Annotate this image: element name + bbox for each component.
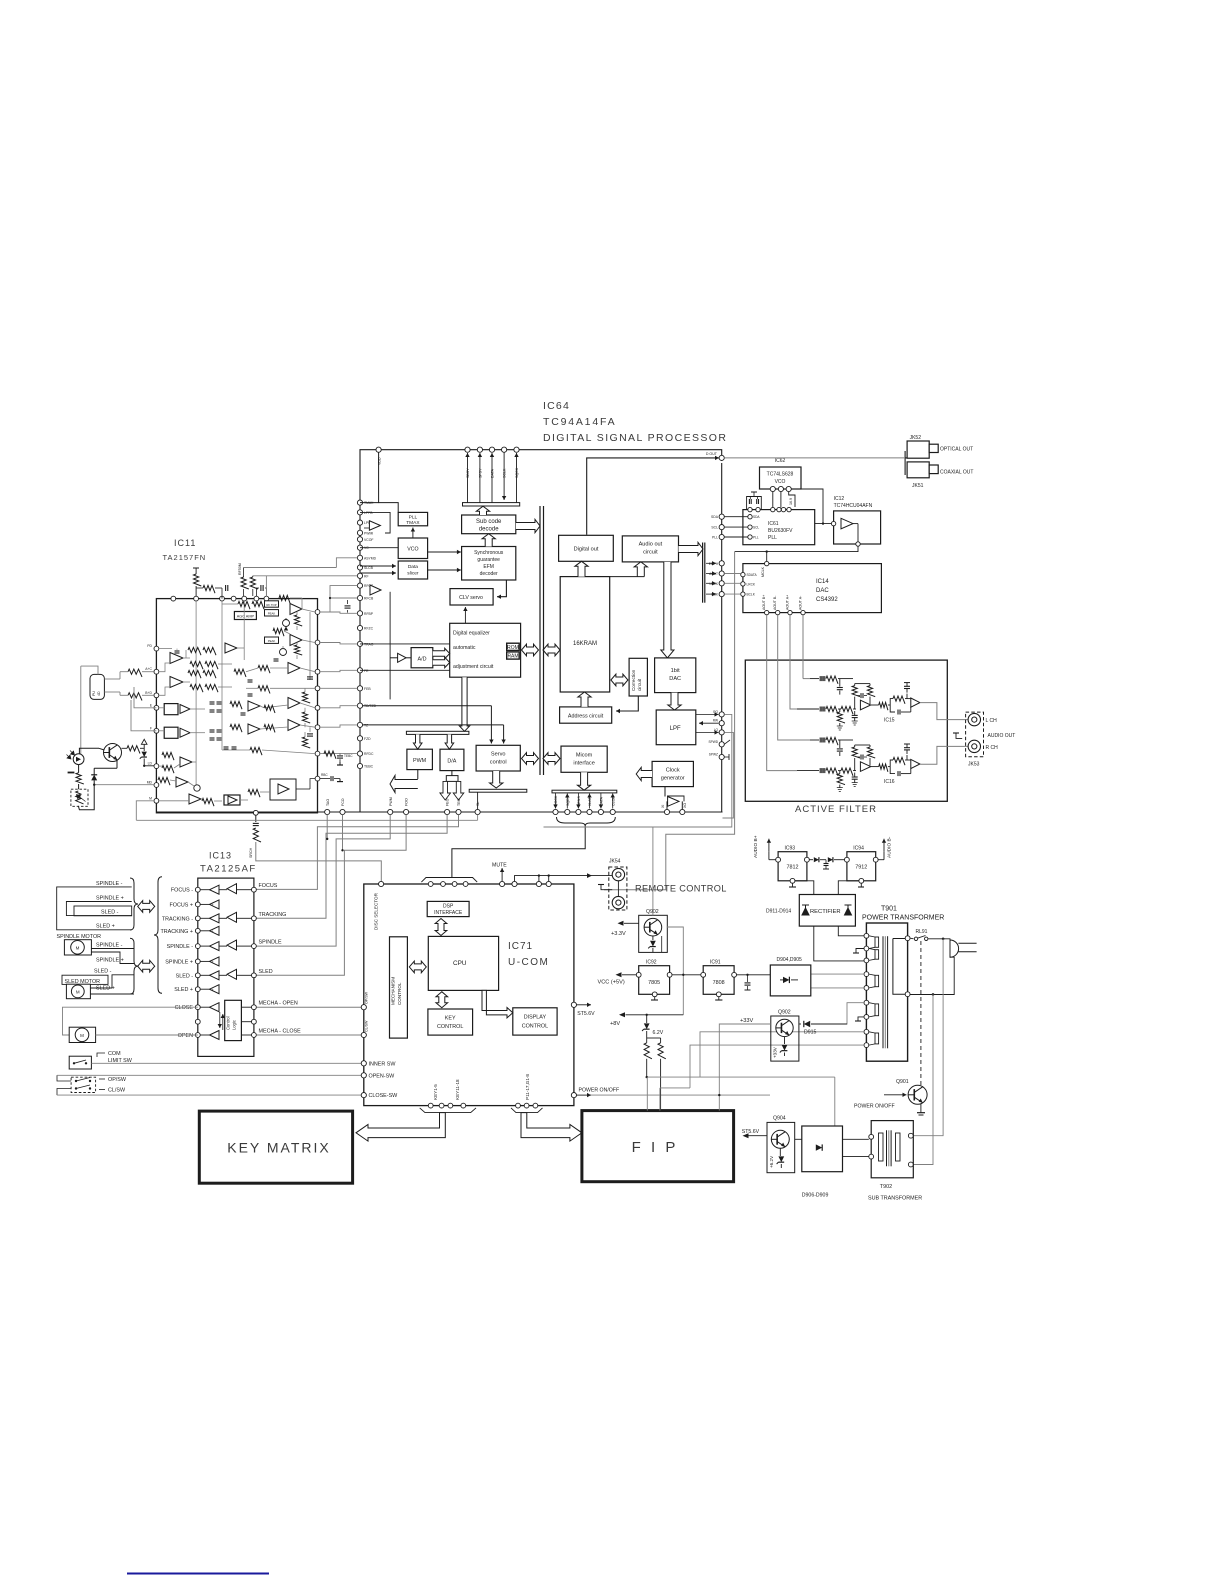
wire B+D [128, 693, 142, 701]
pin SCL ic61 [748, 525, 752, 529]
arrow to FIP [521, 1113, 582, 1142]
svg-text:D OUT: D OUT [706, 452, 718, 456]
pin BCK [719, 592, 724, 597]
op-amp filter 2nd [911, 759, 920, 768]
resistor top1 [195, 572, 197, 574]
wire IC16 out [920, 746, 968, 764]
svg-text:Q904: Q904 [773, 1116, 786, 1122]
pin IC94 gnd [859, 878, 864, 883]
pin IC13 TRACKING [252, 916, 257, 921]
pin T901 [864, 1029, 869, 1034]
svg-text:SLED -: SLED - [176, 973, 194, 979]
brace sled group [130, 938, 138, 994]
inverter IC12 [841, 518, 853, 529]
AC plug [950, 940, 959, 957]
op-amp lower1 [180, 757, 192, 767]
svg-text:XLAT: XLAT [588, 796, 592, 806]
pin IC11 bottom [253, 810, 258, 815]
pin T902 rb [908, 1162, 913, 1167]
Address circuit block [560, 707, 612, 723]
svg-text:IC12: IC12 [834, 496, 845, 502]
svg-text:IC15: IC15 [884, 718, 895, 724]
svg-text:Q902: Q902 [646, 909, 659, 915]
wire A+C [128, 669, 142, 677]
wire rfct rfcb [320, 586, 357, 612]
Data slicer block [398, 561, 427, 579]
arrows control [219, 1012, 221, 1028]
svg-text:IC13: IC13 [209, 851, 232, 861]
pin T901 right bot [905, 992, 910, 997]
pin IC71 top [452, 882, 457, 887]
svg-text:SQDT: SQDT [566, 795, 570, 806]
resistor pair [644, 1043, 652, 1059]
winding [875, 1033, 879, 1044]
pin T901 [864, 1000, 869, 1005]
svg-text:SUB TRANSFORMER: SUB TRANSFORMER [868, 1196, 922, 1202]
pin IC11 left LD [154, 764, 159, 769]
pin IC11 RFDC [315, 640, 320, 645]
wire lrck [724, 582, 740, 584]
wire LO down [723, 732, 734, 818]
svg-text:circuit: circuit [643, 550, 658, 556]
svg-text:INTERFACE: INTERFACE [434, 910, 463, 916]
A/D block [411, 648, 433, 668]
wire loop B [66, 902, 131, 916]
resistor feb gnd [302, 692, 310, 703]
wire IC11 to DSP [320, 706, 357, 708]
svg-text:RFBP: RFBP [364, 612, 374, 616]
svg-text:LPF: LPF [670, 726, 681, 732]
capacitor to gnd 2nd [906, 750, 908, 754]
arrow 16KRAM correction [611, 674, 628, 686]
svg-text:IC14: IC14 [816, 579, 829, 585]
supply triangle +B [141, 739, 147, 744]
wire sda [724, 516, 748, 518]
svg-text:RFDC: RFDC [364, 752, 374, 756]
pin VCOF [357, 537, 362, 542]
svg-text:M: M [80, 1033, 84, 1038]
pin IC11 top [220, 596, 225, 601]
pin EMPH [719, 561, 724, 566]
wire equalizer in TRAG [360, 643, 450, 645]
op-amp RF1 [170, 653, 183, 664]
subcode bus bar [463, 503, 520, 506]
wire mute net to JK54 [515, 876, 613, 882]
arrow PWM output [417, 770, 419, 779]
DISPLAY CONTROL block [513, 1008, 557, 1035]
wire long down right [604, 552, 735, 890]
svg-text:Sub code: Sub code [476, 519, 502, 525]
pin IC11 top [242, 596, 247, 601]
pin RFBP [357, 611, 362, 616]
pin IC14 AOUT B+ [765, 610, 769, 614]
svg-text:AOUT B+: AOUT B+ [762, 595, 766, 610]
wire M pin [136, 801, 154, 821]
wire t901 p6 to d915 [842, 1003, 864, 1024]
pin SQCK [514, 447, 519, 452]
capacitor 747 [747, 975, 749, 982]
svg-text:KEY: KEY [445, 1016, 456, 1022]
pin SDA ic61 [748, 515, 752, 519]
wire 33v left [719, 1024, 771, 1095]
pin IC62 3 [786, 486, 791, 491]
wire d904 p4 [810, 973, 812, 975]
box eq2 [164, 727, 178, 738]
pin IC11 left E [154, 705, 159, 710]
svg-text:TEBC: TEBC [364, 765, 374, 769]
svg-text:FEB: FEB [364, 687, 371, 691]
capacitor gnd row2 [854, 711, 856, 715]
wire IC11 to DSP [320, 670, 357, 671]
svg-text:MD: MD [147, 781, 153, 785]
trapezoid key pins [420, 1108, 476, 1113]
bus arrow servo control [522, 753, 539, 765]
wire pwr onoff fip [659, 1088, 661, 1111]
svg-text:KEY11-18: KEY11-18 [455, 1079, 460, 1100]
arrow VCO to EFM decoder [428, 551, 461, 553]
ground JK54 [601, 885, 612, 890]
wire correction to address [616, 696, 638, 711]
svg-text:SPINDLE -: SPINDLE - [167, 944, 194, 950]
tick minus [68, 772, 75, 774]
pin IC91 r [732, 972, 737, 977]
svg-text:FOCUS +: FOCUS + [169, 902, 193, 908]
svg-text:D915: D915 [804, 1030, 817, 1036]
pin IC11 top [194, 596, 199, 601]
svg-text:TEBC: TEBC [344, 754, 353, 758]
wire MD pin [94, 784, 154, 786]
svg-text:TC74LS628: TC74LS628 [767, 472, 794, 478]
svg-text:CLOK: CLOK [611, 796, 615, 806]
wire IC11 vert2 [221, 601, 223, 750]
pin VC [357, 545, 362, 550]
pin ST5.6V [571, 1002, 576, 1007]
svg-text:LPFB: LPFB [364, 511, 373, 515]
op-amp driver pair [210, 971, 220, 980]
wire IC11 vert3 [243, 601, 245, 660]
pin DAO [404, 809, 409, 814]
pin IC11 RFBP [315, 610, 320, 615]
pin XLAT [587, 809, 592, 814]
pin IC61 top [756, 507, 760, 511]
caps mid cluster [210, 701, 215, 703]
IC13 block [198, 878, 254, 1056]
pin RFZC [357, 625, 362, 630]
pin VDD [376, 447, 381, 452]
pin IC13 MECHA - OPEN [252, 1005, 257, 1010]
arrow equalizer down to bar [459, 677, 469, 731]
resistor feedback2 [869, 684, 871, 686]
svg-text:Q902: Q902 [778, 1010, 791, 1016]
svg-text:+3.3V: +3.3V [611, 931, 626, 937]
wire res bottom [647, 1076, 835, 1078]
svg-text:IC11: IC11 [174, 538, 196, 548]
pin FEB [357, 686, 362, 691]
pin IC14 BCLK [741, 592, 745, 596]
svg-text:VCOF: VCOF [364, 538, 373, 542]
svg-text:ROM: ROM [507, 645, 519, 651]
pin IC91 l [701, 972, 706, 977]
svg-text:FE: FE [364, 669, 369, 673]
svg-text:guarantee: guarantee [477, 557, 500, 563]
wire bck [724, 593, 740, 595]
capacitor feedback [860, 693, 862, 698]
pin T902 lt [869, 1134, 874, 1139]
op-amp lower2 [176, 777, 188, 787]
svg-text:SDA: SDA [753, 515, 760, 519]
svg-text:Clock: Clock [666, 768, 680, 774]
wire lpf in [699, 722, 719, 724]
svg-text:MECHANISM: MECHANISM [391, 977, 396, 1005]
pin IC11 left A+C [154, 669, 159, 674]
svg-text:JK52: JK52 [910, 435, 922, 441]
pin IC13 SLED [252, 973, 257, 978]
16KRAM block [560, 577, 610, 692]
svg-text:Digital equalizer: Digital equalizer [453, 631, 490, 637]
resistor rf net1 [190, 661, 203, 669]
label SLED MOTOR [62, 975, 108, 984]
svg-text:Logic: Logic [232, 1020, 237, 1030]
svg-text:16.9: 16.9 [789, 498, 793, 505]
wire rl91 to plug [928, 939, 950, 940]
winding [875, 950, 879, 960]
IC12 block [834, 511, 881, 544]
Digital equalizer block [450, 623, 521, 677]
wire rect to t901 p1 [838, 926, 864, 936]
IC61 block [743, 510, 815, 545]
bus arrow ROM RAM [522, 644, 539, 656]
pin LPFB [357, 510, 362, 515]
wire data slicer left1 [360, 565, 396, 567]
capacitor to gnd 2nd [906, 689, 908, 693]
pin IC11 top [254, 596, 259, 601]
wire IC11 vert1 [195, 601, 197, 790]
IC11 block [156, 599, 317, 813]
wire rect to ic94 [838, 881, 859, 895]
wire IC15 out [920, 703, 968, 720]
pin IC91 g [716, 992, 721, 997]
op-amp before A/D [390, 657, 398, 659]
svg-text:+6.2V: +6.2V [769, 1155, 774, 1168]
pin IC12 out [856, 542, 860, 546]
RECTIFIER block [799, 895, 855, 927]
pin IC13 MECHA - CLOSE [252, 1033, 257, 1038]
arrow to key matrix [356, 1113, 445, 1142]
svg-text:D906-D909: D906-D909 [802, 1193, 829, 1199]
zener laser [141, 752, 146, 757]
pin SPWZ [719, 754, 724, 759]
wire q902 riser up [652, 827, 654, 915]
svg-text:AOUT B-: AOUT B- [773, 595, 777, 610]
pin IC93 out [805, 857, 810, 862]
svg-text:FOCUS -: FOCUS - [171, 888, 193, 894]
svg-text:Q901: Q901 [896, 1079, 909, 1085]
arrow DA out right [453, 781, 464, 800]
svg-text:SPINDLE: SPINDLE [259, 940, 282, 946]
wire EFM to CLV servo [497, 580, 506, 597]
op-amp row A [290, 604, 302, 615]
KEY CONTROL block [428, 1009, 473, 1035]
svg-text:RBC: RBC [321, 773, 328, 777]
circle var2 [280, 649, 287, 656]
svg-text:SPINDLE -: SPINDLE - [96, 881, 123, 887]
svg-text:TRAG: TRAG [364, 642, 374, 646]
svg-text:DAC: DAC [816, 588, 829, 594]
wire IC62 right to IC12 net [795, 489, 823, 524]
svg-text:7812: 7812 [787, 865, 799, 871]
wire mid pin [241, 1021, 251, 1023]
svg-text:CLV servo: CLV servo [459, 595, 483, 601]
svg-text:T901: T901 [881, 906, 897, 913]
pin dao2 [456, 809, 461, 814]
arrow mute [501, 868, 503, 881]
svg-text:D/A: D/A [447, 759, 456, 765]
pin T901 right top [905, 936, 910, 941]
pin TEBC [357, 763, 362, 768]
pin LRCK [719, 581, 724, 586]
svg-text:JK51: JK51 [912, 483, 924, 489]
svg-text:F I P: F I P [632, 1139, 679, 1156]
pin OPEN-SW [361, 1073, 366, 1078]
wire digital out to D OUT [587, 458, 719, 535]
wire IC11 vert5 [309, 612, 311, 680]
svg-text:LRCK: LRCK [747, 582, 756, 586]
op-amp open drv [210, 1031, 220, 1040]
RC network 2nd [890, 699, 893, 705]
svg-text:OPEN-SW: OPEN-SW [369, 1073, 396, 1079]
wire vertical eq left [389, 592, 391, 700]
capacitor pd pin [159, 648, 172, 650]
arrow servo control down [490, 771, 503, 788]
Sub code decode block [462, 515, 516, 534]
brace spindle group [130, 878, 138, 930]
winding [875, 937, 879, 947]
pin T901 [864, 972, 869, 977]
pin IC14 AOUT A+ [788, 610, 792, 614]
op-amp driver pair [210, 914, 220, 923]
pin IC11 top [264, 596, 269, 601]
wire pickup loop [81, 666, 98, 674]
Synchronous guarantee EFM decoder block [462, 547, 516, 581]
capacitor mid [825, 860, 827, 863]
capacitor rfbp line [345, 605, 351, 607]
svg-text:LD: LD [148, 762, 153, 766]
arrow data slicer to EFM decoder [428, 569, 461, 571]
pin IC11 left PD [154, 646, 159, 651]
svg-text:RAM: RAM [507, 654, 518, 660]
resistor r var1 [294, 615, 302, 626]
op-amp feb [288, 663, 300, 674]
pin RFCB [357, 595, 362, 600]
pin IC14 LRCK [741, 582, 745, 586]
svg-text:XI: XI [661, 805, 665, 808]
pin INNER SW [361, 1061, 366, 1066]
pin IC71 fip [516, 1103, 521, 1108]
svg-text:6.2V: 6.2V [653, 1030, 664, 1036]
LPF block [656, 710, 696, 745]
pin RFDC [357, 751, 362, 756]
svg-text:CONTROL: CONTROL [522, 1024, 548, 1030]
pin IC11 TEB [315, 725, 320, 730]
pin CLOK [610, 809, 615, 814]
svg-text:TAO: TAO [326, 799, 330, 806]
svg-text:AUDIO B+: AUDIO B+ [753, 835, 759, 858]
svg-text:OPTICAL OUT: OPTICAL OUT [940, 447, 973, 453]
op-amp teb mid [248, 724, 260, 734]
pin T902 rt [908, 1133, 913, 1138]
svg-text:POWER TRANSFORMER: POWER TRANSFORMER [862, 915, 944, 922]
svg-text:AUDIO OUT: AUDIO OUT [988, 733, 1016, 739]
motor sled [66, 984, 90, 999]
svg-text:Control: Control [226, 1016, 231, 1030]
svg-text:RF TOP: RF TOP [266, 603, 276, 607]
CPU block [428, 936, 498, 990]
RAM label [507, 652, 520, 659]
svg-text:TC94A14FA: TC94A14FA [543, 416, 616, 428]
switch op cl [71, 1077, 96, 1092]
JK52 optical connector [907, 441, 929, 458]
svg-text:TA2125AF: TA2125AF [200, 864, 257, 875]
pin AOUT [719, 571, 724, 576]
svg-text:F: F [150, 726, 152, 730]
T902 block [871, 1121, 913, 1178]
pin IC11 top [231, 596, 236, 601]
wire IC11 to DSP [320, 687, 357, 689]
IC71 block [364, 884, 574, 1106]
svg-text:SCL: SCL [753, 526, 759, 530]
pin IC13 SLED - [195, 973, 200, 978]
pin IC71 fip [533, 1103, 538, 1108]
IC62 block [760, 467, 802, 489]
wire IC14 drop3 [778, 615, 810, 740]
svg-text:7805: 7805 [648, 980, 660, 986]
bus arrow micom interface [543, 753, 560, 765]
pin SBSY [465, 447, 470, 452]
svg-text:M: M [76, 946, 80, 951]
svg-text:PWM: PWM [389, 797, 393, 806]
Servo control block [476, 745, 520, 771]
svg-text:OP/SW: OP/SW [108, 1077, 127, 1083]
resistor top4 [250, 577, 258, 589]
photodiode MD [73, 754, 84, 765]
wire rect to ic93 [795, 881, 814, 895]
resistor feedback2 [869, 745, 871, 747]
capacitor feedback [860, 755, 862, 760]
svg-text:RECTIFIER: RECTIFIER [810, 909, 841, 915]
svg-text:interface: interface [573, 761, 594, 767]
svg-text:RF50M: RF50M [238, 563, 242, 575]
svg-text:RFZC: RFZC [364, 627, 374, 631]
pin IC11 left B+D [154, 693, 159, 698]
pin TRAG [357, 641, 362, 646]
svg-text:Synchronous: Synchronous [474, 550, 504, 556]
svg-text:SCL: SCL [711, 526, 718, 530]
arrow A/D to equalizer [433, 648, 450, 658]
resistor md [76, 773, 84, 784]
pin IC14 AOUT B- [776, 610, 780, 614]
pin IC13 TRACKING - [195, 916, 200, 921]
svg-text:SDATA: SDATA [747, 573, 758, 577]
wire +8V [626, 1014, 684, 1016]
svg-text:B+D: B+D [145, 691, 152, 695]
wire IC12 out to IC14 mclk [735, 546, 858, 551]
wire asymd [336, 558, 357, 568]
diode laser fb [91, 775, 97, 781]
svg-text:+33V: +33V [773, 1046, 778, 1058]
svg-text:FZD: FZD [364, 737, 371, 741]
svg-text:OP/SW: OP/SW [365, 991, 369, 1004]
svg-text:MECHA - CLOSE: MECHA - CLOSE [259, 1029, 302, 1035]
